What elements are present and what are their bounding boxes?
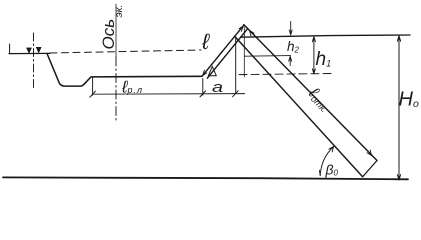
beta0 arc tick bottom bbox=[318, 170, 321, 175]
h1 dimension line bbox=[312, 37, 315, 74]
slope upper line bbox=[244, 25, 377, 161]
ground line bbox=[3, 177, 408, 179]
beta0 angle arc bbox=[320, 147, 333, 176]
crest line (top horizontal) bbox=[241, 35, 411, 37]
peak vertical line bbox=[243, 27, 245, 77]
dashed reference line (bank level) bbox=[239, 74, 333, 75]
slope dim arrow top bbox=[250, 30, 255, 36]
label l otk (rotated along slope) bbox=[304, 84, 335, 115]
water line end tick bbox=[9, 44, 11, 54]
water level mark 1 bbox=[27, 48, 32, 53]
svg-text:Ось: Ось bbox=[99, 19, 118, 50]
screen blade left line bbox=[202, 25, 244, 76]
h2 reference line bbox=[245, 55, 291, 58]
dashed water surface line bbox=[50, 50, 201, 53]
beta0 arc arrow top bbox=[329, 147, 334, 152]
screen blade right line bbox=[207, 28, 248, 78]
svg-text:эк.: эк. bbox=[113, 4, 125, 17]
h2 arrow upper bbox=[289, 22, 292, 35]
slope dim arrow bottom bbox=[367, 150, 372, 156]
left centerline (dash-dot) bbox=[33, 33, 35, 90]
dimension line l and a bbox=[93, 93, 245, 96]
dim oblique tick 1 bbox=[90, 91, 96, 97]
axis line of screen (Os ek) bbox=[115, 4, 117, 57]
svg-text:a: a bbox=[212, 79, 223, 96]
dim oblique tick 2 bbox=[200, 91, 206, 97]
extension tick mid (blade base) bbox=[202, 79, 204, 96]
H0 dimension line bbox=[397, 36, 400, 180]
dim oblique tick 3 bbox=[233, 91, 239, 97]
slope lower line bbox=[235, 37, 363, 177]
h2 arrow lower bbox=[289, 56, 292, 65]
delta symbol bbox=[208, 67, 216, 76]
water level mark 2 bbox=[36, 47, 41, 53]
water level line (left) bbox=[9, 52, 50, 54]
slope end cap bbox=[363, 161, 377, 177]
extension tick left bbox=[92, 77, 94, 95]
channel bank profile bbox=[47, 54, 202, 87]
blade dim arrow top bbox=[239, 26, 243, 31]
svg-text:ℓ: ℓ bbox=[201, 29, 210, 54]
axis line dash-dot lower part bbox=[115, 57, 117, 122]
blade dim arrow bottom bbox=[203, 70, 207, 75]
apex vertical line bbox=[235, 37, 237, 94]
